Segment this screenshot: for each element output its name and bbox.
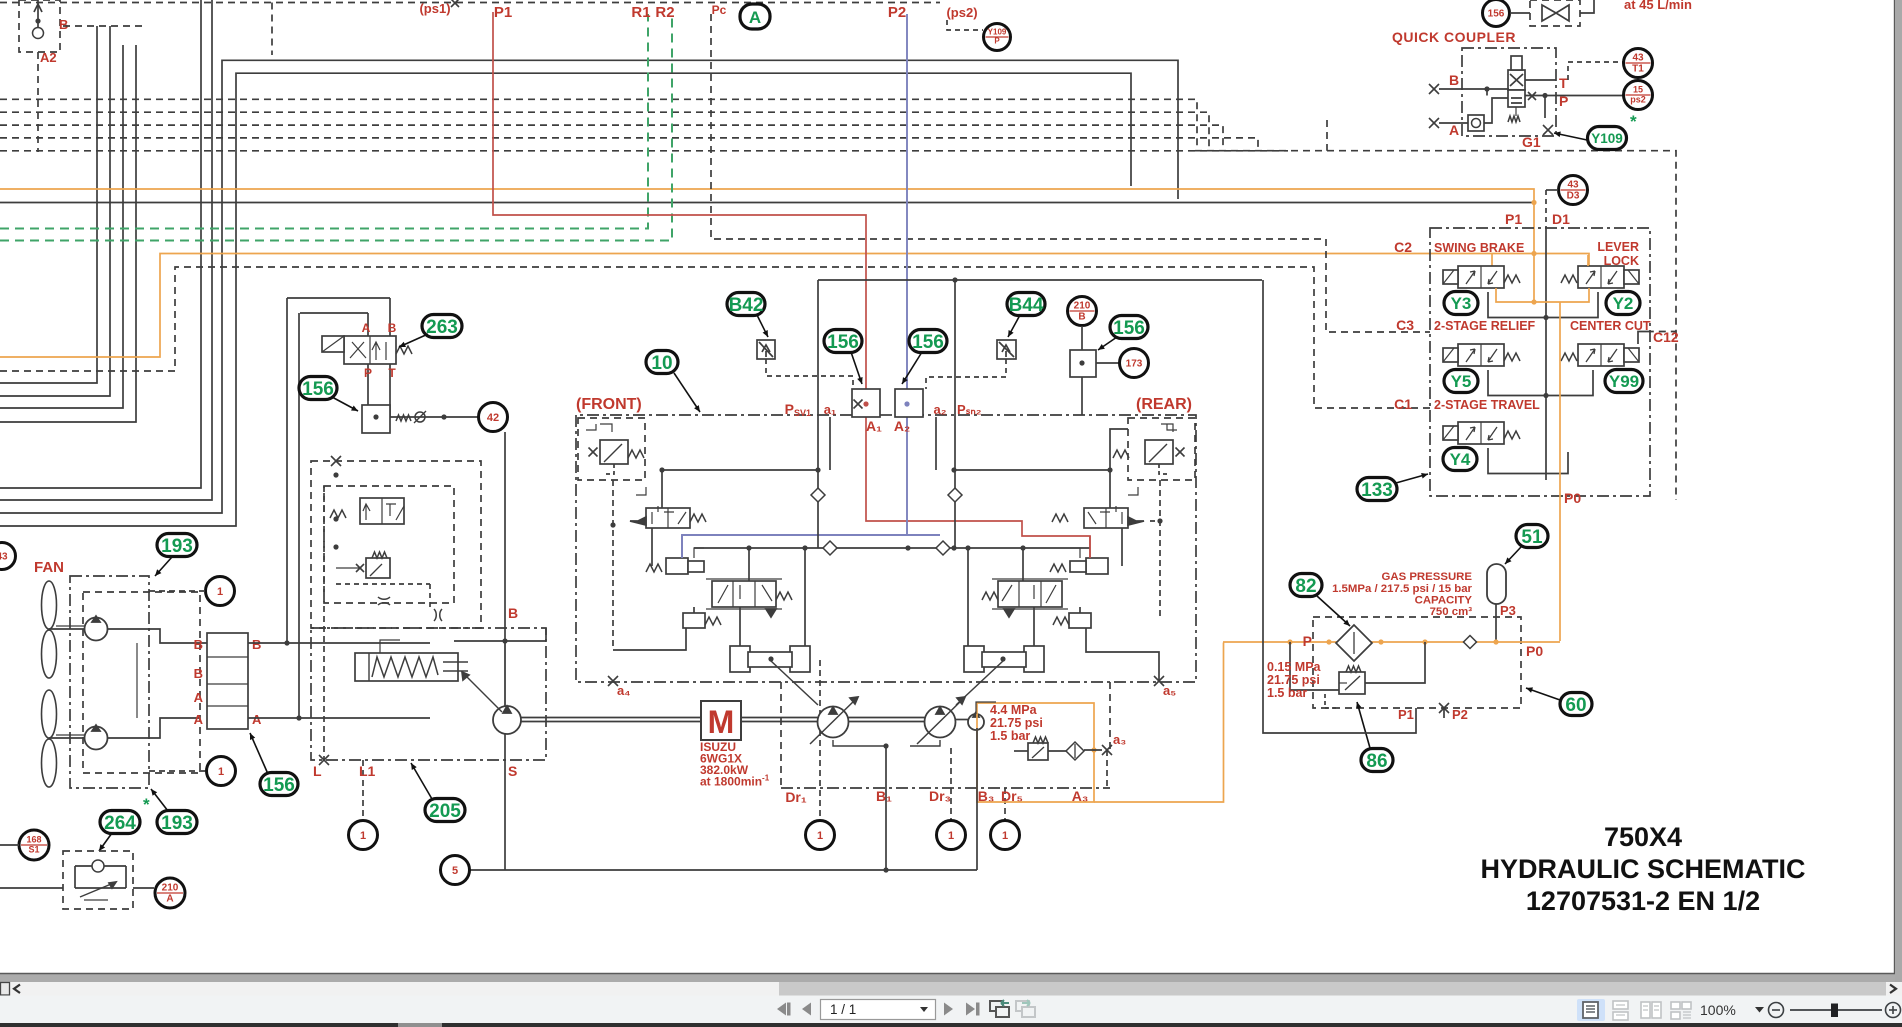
wire L port — [313, 486, 517, 779]
svg-text:156: 156 — [1488, 9, 1505, 20]
svg-text:12707531-2 EN 1/2: 12707531-2 EN 1/2 — [1526, 886, 1760, 916]
svg-text:a₅: a₅ — [1163, 683, 1176, 698]
svg-text:168: 168 — [26, 835, 41, 845]
charge valve — [330, 498, 404, 524]
qc check valve — [1468, 98, 1508, 131]
check valve front lo — [823, 541, 837, 555]
label a5 — [1154, 676, 1176, 698]
svg-text:M: M — [708, 704, 735, 740]
3way valve front — [630, 470, 706, 528]
damper valve rear — [1053, 607, 1091, 628]
svg-text:A₂: A₂ — [894, 418, 910, 434]
zoom dropdown caret — [1755, 1007, 1764, 1013]
pilot block box — [1430, 228, 1650, 496]
label C2 SWING BRAKE — [1394, 239, 1524, 255]
wire flow line — [0, 887, 154, 889]
svg-text:*: * — [1630, 112, 1637, 131]
svg-text:1.5 bar: 1.5 bar — [1267, 686, 1307, 700]
svg-text:P1: P1 — [1398, 707, 1414, 722]
svg-text:A: A — [252, 712, 262, 727]
scrollbar left arrow — [14, 985, 20, 994]
svg-text:A: A — [194, 690, 204, 705]
main pump 1 — [810, 697, 858, 744]
svg-text:R2: R2 — [655, 4, 674, 21]
svg-text:at 45 L/min: at 45 L/min — [1624, 0, 1692, 12]
wire B port charge — [454, 605, 546, 706]
fan 1 — [42, 581, 108, 678]
wire nested box inner — [0, 73, 1131, 526]
svg-text:G1: G1 — [1522, 134, 1541, 150]
label (REAR) — [1136, 396, 1192, 413]
valve 263 wires — [287, 298, 390, 718]
svg-text:1 / 1: 1 / 1 — [830, 1002, 856, 1017]
svg-text:1.5 bar: 1.5 bar — [990, 729, 1030, 743]
pilot cluster front — [646, 535, 704, 574]
scrollbar right arrow — [1890, 985, 1896, 994]
tag 15-ps2 circle — [1624, 81, 1653, 110]
tag 43-T1 circle — [1624, 49, 1653, 78]
label ISUZU engine — [700, 740, 770, 789]
svg-text:P2: P2 — [1452, 707, 1468, 722]
tag 5 circle — [441, 856, 470, 885]
svg-text:B: B — [59, 17, 68, 32]
label (FRONT) — [576, 396, 642, 413]
tag 1 circle drain1 — [806, 821, 835, 850]
label GAS PRESSURE — [1332, 571, 1472, 618]
pump control box (10) — [576, 415, 1196, 682]
tag 1 circle fan top — [149, 577, 235, 606]
svg-text:B44: B44 — [1009, 295, 1044, 316]
svg-text:2-STAGE TRAVEL: 2-STAGE TRAVEL — [1434, 398, 1540, 412]
svg-text:Dr₃: Dr₃ — [929, 788, 951, 804]
svg-text:1.5MPa / 217.5 psi / 15 bar: 1.5MPa / 217.5 psi / 15 bar — [1332, 583, 1472, 595]
wire dashed bus D2 — [0, 112, 1209, 150]
svg-text:2-STAGE RELIEF: 2-STAGE RELIEF — [1434, 319, 1536, 333]
wire top dashed border — [0, 2, 940, 4]
compensator rear box — [1128, 418, 1195, 480]
wire regulator bus — [818, 277, 1262, 548]
wire rear reg line — [951, 429, 1128, 473]
tag 210-B circle — [1068, 297, 1097, 351]
svg-text:1: 1 — [360, 830, 366, 842]
tag 205 oval — [411, 763, 465, 822]
tag 173 circle — [1082, 349, 1149, 416]
label P port — [1303, 633, 1544, 659]
qc port T wire — [1525, 75, 1568, 91]
svg-text:B: B — [194, 666, 203, 681]
node P2 label — [888, 4, 906, 21]
wire bus vertical V2 — [0, 0, 212, 500]
svg-text:Y99: Y99 — [1609, 372, 1639, 391]
svg-text:L: L — [313, 763, 322, 779]
title HYDRAULIC SCHEMATIC — [1481, 854, 1806, 884]
svg-text:Pₛₙ₂: Pₛₙ₂ — [957, 402, 982, 417]
svg-text:Y109: Y109 — [988, 28, 1007, 37]
page layout icon scrolling — [1607, 999, 1635, 1021]
fan port box — [207, 633, 248, 729]
svg-text:P: P — [1303, 633, 1312, 649]
solenoid vent B42 — [757, 340, 853, 389]
svg-text:a₁: a₁ — [824, 402, 837, 417]
node R1 label — [631, 4, 650, 21]
wire red pilot P1 — [493, 12, 1090, 558]
svg-text:205: 205 — [429, 801, 461, 822]
orifice symbols — [336, 584, 442, 621]
prop valve rear — [982, 579, 1068, 617]
svg-text:B: B — [1078, 312, 1085, 323]
svg-text:L1: L1 — [359, 763, 376, 779]
page layout icon single — [1577, 999, 1605, 1021]
svg-text:C3: C3 — [1396, 317, 1414, 333]
cylinder 205 — [355, 640, 468, 681]
svg-text:210: 210 — [162, 883, 179, 894]
page layout icon two-up — [1637, 999, 1665, 1021]
svg-text:D3: D3 — [1567, 191, 1580, 202]
svg-text:P1: P1 — [494, 4, 512, 21]
tag 156 oval PSV2 — [902, 330, 947, 385]
label 0.15 MPa — [1267, 660, 1322, 700]
qc port P wire — [1525, 92, 1623, 109]
svg-text:(FRONT): (FRONT) — [576, 396, 642, 413]
label LEVER LOCK — [1597, 240, 1639, 268]
svg-text:1: 1 — [217, 586, 223, 598]
svg-text:21.75 psi: 21.75 psi — [1267, 673, 1320, 687]
svg-text:156: 156 — [1113, 318, 1145, 339]
svg-text:B: B — [508, 605, 518, 621]
svg-text:21.75 psi: 21.75 psi — [990, 716, 1043, 730]
node A2 label — [40, 50, 57, 65]
wire orange main — [0, 189, 1534, 302]
svg-text:210: 210 — [1074, 301, 1091, 312]
compensator front box — [578, 418, 645, 480]
svg-text:B: B — [388, 321, 397, 335]
wire pump feed S — [504, 432, 506, 706]
wire blue pilot P2 — [682, 14, 907, 558]
svg-text:43: 43 — [0, 552, 8, 563]
wire fan motor links — [107, 629, 207, 738]
svg-text:A: A — [362, 321, 371, 335]
orange case drain loop — [977, 643, 1224, 803]
zoom in button — [1886, 1003, 1901, 1018]
svg-text:B: B — [252, 637, 261, 652]
title document number — [1526, 886, 1760, 916]
qc port B wire — [1429, 72, 1509, 94]
solenoid Y109 oval — [1554, 112, 1637, 150]
svg-text:60: 60 — [1565, 695, 1586, 716]
svg-text:1: 1 — [1002, 830, 1008, 842]
wire rear pilot drop — [1086, 480, 1160, 680]
svg-text:Dr₁: Dr₁ — [785, 789, 807, 805]
taskbar strip — [0, 1023, 1902, 1027]
svg-text:A: A — [1449, 122, 1459, 138]
page number box — [821, 1000, 936, 1020]
wire dashed bus D5 — [0, 150, 1288, 152]
svg-text:10: 10 — [651, 353, 672, 374]
svg-text:P2: P2 — [888, 4, 906, 21]
wire A2 dashed stub — [38, 26, 147, 152]
charge pump box — [311, 628, 546, 760]
node (ps1) label — [272, 0, 459, 55]
svg-text:193: 193 — [161, 813, 193, 834]
tag 86 oval — [1356, 702, 1393, 772]
svg-text:a₂: a₂ — [933, 402, 946, 417]
previous view icon — [990, 1000, 1009, 1017]
svg-text:(REAR): (REAR) — [1136, 396, 1192, 413]
svg-text:P: P — [994, 37, 1000, 46]
svg-text:CAPACITY: CAPACITY — [1415, 595, 1473, 607]
svg-text:263: 263 — [426, 317, 458, 338]
label a4 — [608, 676, 630, 698]
tag 156 oval damper — [1098, 316, 1148, 351]
qc dashed T1 link — [1568, 62, 1623, 80]
svg-text:P: P — [1559, 93, 1568, 109]
tag B42 oval — [727, 293, 768, 338]
solenoid valve Y5 — [1443, 344, 1520, 366]
pilot cluster rear — [1050, 536, 1108, 574]
wire bundle A4 — [0, 45, 136, 422]
relief valve a3 — [1014, 737, 1066, 760]
svg-text:156: 156 — [827, 332, 859, 353]
zoom slider — [1790, 1004, 1882, 1018]
charge block box — [311, 456, 481, 628]
svg-text:ps2: ps2 — [1630, 95, 1646, 105]
solenoid valve Y4 — [1443, 422, 1520, 444]
svg-text:B42: B42 — [729, 295, 764, 316]
svg-text:82: 82 — [1295, 576, 1316, 597]
fan port labels — [194, 637, 262, 727]
svg-text:LEVER: LEVER — [1597, 240, 1639, 254]
fan 2 — [42, 690, 108, 787]
wire dashed bus D3 — [0, 125, 1223, 150]
svg-text:0.15 MPa: 0.15 MPa — [1267, 660, 1322, 674]
wire pilot line dark — [0, 200, 1537, 205]
svg-text:A₁: A₁ — [866, 418, 882, 434]
tag 1 circle drain5 — [991, 821, 1020, 850]
drive shaft — [520, 718, 968, 722]
fan motor box inner — [83, 592, 200, 773]
horizontal scrollbar thumb — [779, 982, 1886, 996]
check valve A2 symbol — [33, 0, 44, 39]
restrictor box 156 — [362, 405, 390, 433]
svg-text:S1: S1 — [28, 845, 39, 855]
svg-text:Y3: Y3 — [1451, 294, 1472, 313]
dash-dot pump bay — [781, 682, 1110, 788]
svg-text:43: 43 — [1632, 53, 1644, 64]
check restrictor 42 — [390, 411, 478, 423]
svg-text:S: S — [508, 763, 517, 779]
svg-text:750X4: 750X4 — [1604, 822, 1682, 852]
tag 10 oval — [646, 351, 700, 413]
node P1 label — [494, 4, 512, 21]
svg-text:A: A — [749, 8, 761, 27]
wire suction line — [470, 702, 996, 873]
tag 264 oval — [99, 795, 150, 851]
svg-text:Y5: Y5 — [1451, 372, 1472, 391]
tag 133 oval — [1357, 473, 1428, 501]
svg-text:a₃: a₃ — [1113, 732, 1126, 747]
svg-text:43: 43 — [1567, 180, 1579, 191]
wire ps2 dashed stub — [947, 20, 983, 30]
node R2 label — [655, 4, 674, 21]
check valve front hi — [811, 488, 825, 502]
label FAN — [34, 559, 64, 576]
node Pc label — [712, 3, 727, 17]
engine M box — [701, 701, 741, 740]
3way valve rear — [1052, 470, 1163, 528]
label at 45 L/min — [1624, 0, 1692, 12]
vertical scrollbar — [1895, 0, 1902, 982]
svg-text:T: T — [388, 366, 396, 380]
tag 156 oval fan — [250, 733, 298, 796]
tag 1 circle L1 — [349, 760, 378, 850]
qc G1 port — [1487, 89, 1553, 150]
svg-text:P1: P1 — [1505, 211, 1522, 227]
label 4.4 MPa — [990, 703, 1043, 743]
tag 51 oval — [1505, 525, 1548, 565]
svg-text:A: A — [194, 712, 204, 727]
label C1 2-STAGE TRAVEL — [1394, 396, 1540, 412]
svg-text:GAS PRESSURE: GAS PRESSURE — [1381, 571, 1472, 583]
nav first page button — [777, 1003, 791, 1016]
svg-text:Y109: Y109 — [1591, 131, 1623, 146]
svg-text:51: 51 — [1521, 527, 1543, 548]
svg-text:P0: P0 — [1564, 490, 1581, 506]
tag B44 oval — [1007, 293, 1045, 338]
zoom out button — [1769, 1003, 1784, 1018]
wire orange branch — [0, 251, 1589, 357]
valve 156 circle — [1483, 0, 1510, 27]
svg-text:B: B — [1449, 72, 1459, 88]
node (ps2) label — [946, 5, 977, 20]
damper box 156-173 — [1070, 350, 1120, 377]
wire fan A line — [248, 715, 430, 720]
check valve rear lo — [936, 541, 950, 555]
solenoid valve Y3 — [1443, 266, 1520, 288]
pilot block internal wires — [1488, 190, 1651, 480]
wire orange supply — [1223, 639, 1560, 644]
tag 43 circle edge — [0, 543, 16, 570]
label PSV1 ports — [785, 401, 883, 434]
prop valve front — [706, 579, 792, 617]
tag 168-S1 circle — [0, 830, 49, 860]
tag 43-D3 circle — [1559, 176, 1588, 205]
check valve A2 box — [19, 0, 60, 52]
svg-text:156: 156 — [912, 332, 944, 353]
svg-text:C1: C1 — [1394, 396, 1412, 412]
svg-text:(ps2): (ps2) — [946, 5, 977, 20]
filter 82 — [1336, 625, 1372, 661]
valve 263 port labels — [362, 321, 397, 380]
tag Y109-P circle — [984, 24, 1011, 51]
accumulator block box — [1313, 617, 1521, 708]
svg-text:1: 1 — [817, 830, 823, 842]
tag 82 oval — [1290, 574, 1350, 627]
flow control box — [63, 851, 133, 909]
wire front reg line — [659, 467, 820, 472]
tag 210-A circle — [155, 878, 185, 908]
accumulator 51 — [1487, 564, 1516, 641]
fan drive box — [70, 576, 149, 788]
label drain ports — [785, 788, 1088, 805]
label QUICK COUPLER — [1392, 29, 1516, 45]
svg-text:C2: C2 — [1394, 239, 1412, 255]
qc valve U1 — [1508, 56, 1525, 122]
gear pump 3 — [968, 712, 984, 730]
svg-text:T1: T1 — [1632, 64, 1644, 75]
svg-text:173: 173 — [1126, 359, 1143, 370]
wire orange A3 riser — [1106, 750, 1108, 788]
wire green pilot R1 — [0, 14, 648, 229]
svg-text:264: 264 — [104, 813, 136, 834]
tag 193 oval bottom — [151, 789, 197, 834]
svg-text:86: 86 — [1366, 751, 1387, 772]
solenoid Y2 oval — [1606, 292, 1640, 315]
svg-text:FAN: FAN — [34, 559, 64, 576]
svg-text:A: A — [166, 894, 173, 905]
quick coupler box — [1462, 48, 1556, 136]
svg-text:133: 133 — [1361, 480, 1393, 501]
charge pump circle — [462, 672, 521, 734]
wire bus vertical V1 — [0, 0, 201, 488]
svg-text:D1: D1 — [1552, 211, 1570, 227]
wire servo bus — [694, 545, 1090, 550]
nav last page button — [966, 1003, 980, 1016]
solenoid valve PSV1 box — [852, 389, 880, 417]
svg-text:1: 1 — [218, 766, 224, 778]
svg-text:Y2: Y2 — [1613, 294, 1634, 313]
wire bundle A3 — [0, 45, 123, 408]
svg-text:QUICK COUPLER: QUICK COUPLER — [1392, 29, 1516, 45]
svg-text:R1: R1 — [631, 4, 650, 21]
solenoid Y4 oval — [1443, 448, 1477, 471]
svg-text:156: 156 — [302, 379, 334, 400]
svg-text:42: 42 — [487, 412, 499, 424]
damper valve front — [683, 607, 721, 628]
solenoid Y3 oval — [1444, 292, 1478, 315]
label C3 2-STAGE RELIEF — [1396, 317, 1535, 333]
svg-text:HYDRAULIC SCHEMATIC: HYDRAULIC SCHEMATIC — [1481, 854, 1806, 884]
wire fan B line — [248, 640, 430, 645]
svg-text:(ps1): (ps1) — [419, 1, 450, 16]
port A oval — [740, 4, 770, 29]
svg-text:Pc: Pc — [712, 3, 727, 17]
svg-text:156: 156 — [263, 775, 295, 796]
zoom level text — [1700, 1002, 1736, 1018]
label PSV2 ports — [894, 402, 982, 434]
svg-text:193: 193 — [161, 536, 193, 557]
node B label topleft — [59, 17, 68, 32]
svg-text:P: P — [364, 366, 372, 380]
nav next page button — [944, 1003, 953, 1016]
solenoid Y99 oval — [1605, 370, 1643, 393]
label CENTER CUT — [1570, 319, 1651, 333]
tag 60 oval — [1526, 687, 1592, 715]
svg-text:A2: A2 — [40, 50, 57, 65]
label P1 P2 ports — [1398, 703, 1468, 722]
wire bundle A1 — [0, 26, 97, 383]
relief valve 86 — [1290, 642, 1425, 708]
svg-text:15: 15 — [1633, 85, 1643, 95]
label C12 — [1653, 329, 1679, 345]
next view icon — [1016, 1000, 1035, 1017]
solenoid valve Y2 — [1561, 266, 1639, 288]
svg-text:T: T — [1559, 75, 1568, 91]
solenoid vent B44 — [926, 340, 1016, 389]
wire dashed bus D1 — [0, 99, 1197, 150]
svg-text:*: * — [143, 795, 150, 814]
wire blue stub — [907, 534, 940, 536]
wire dashed link right — [1195, 120, 1676, 500]
